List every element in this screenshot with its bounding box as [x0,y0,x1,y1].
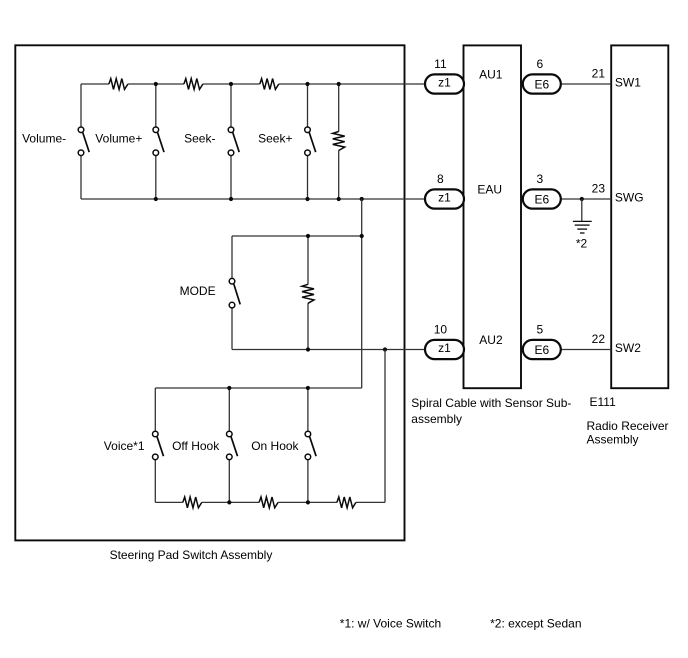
svg-text:Voice*1: Voice*1 [104,439,145,453]
svg-text:Off Hook: Off Hook [172,439,220,453]
svg-text:E6: E6 [534,193,549,207]
wire: voice top rail y388 [155,387,361,389]
junction dot EAU rail [305,197,309,201]
box: Radio Receiver Assembly (E111) [611,45,668,388]
junction dot top rail [337,82,341,86]
svg-text:z1: z1 [438,341,451,355]
resistor R6 (voice row left) [183,497,202,508]
svg-text:z1: z1 [438,76,451,90]
wire: Seek+ branch verticals [307,84,309,199]
wire: vertical from AU2 rail down to voice bottom rail (x385) [384,350,386,503]
svg-text:11: 11 [434,57,447,71]
wire: EAU bottom rail y199 [81,198,425,200]
svg-text:SWG: SWG [615,191,644,205]
svg-text:SW2: SW2 [615,341,641,355]
wire: vertical from EAU rail down to voice top rail (x361.7) [361,199,363,388]
wire: Voice*1 branch verticals [154,388,156,502]
junction dot AU2 rail at resistor [306,347,310,351]
svg-text:Assembly: Assembly [587,432,639,446]
caption Radio Receiver Assembly [587,419,669,447]
svg-text:On Hook: On Hook [251,439,299,453]
resistor R5 (MODE parallel) [302,284,314,303]
resistor R7 (voice row middle) [259,497,278,508]
svg-text:Radio Receiver: Radio Receiver [587,419,669,433]
svg-text:Seek-: Seek- [184,131,215,145]
svg-text:SW1: SW1 [615,76,641,90]
svg-text:E6: E6 [534,343,549,357]
wire: On Hook branch verticals [307,388,309,502]
junction dot voice top rail On Hook [306,386,310,390]
connector z1 (EAU row) [425,189,464,208]
junction dot top rail [154,82,158,86]
svg-text:5: 5 [536,323,543,337]
switch On Hook [305,431,316,460]
wire: AU2 row between E6 and radio box [561,349,611,351]
resistor R4 (top row vertical) [333,132,345,151]
resistor R2 (between Volume+ and Seek-) [184,79,203,90]
junction dot ground tap x581.8 on EAU-SWG wire [580,197,584,201]
svg-text:6: 6 [536,57,543,71]
svg-text:*2: *2 [576,237,588,251]
resistor R8 (voice row right) [337,497,356,508]
svg-text:Seek+: Seek+ [258,131,292,145]
svg-text:10: 10 [434,323,448,337]
wire: Seek- branch verticals [230,84,232,199]
wire: pull-up resistor branch verticals [338,84,340,199]
switch MODE [229,278,240,308]
svg-text:E111: E111 [590,395,617,409]
wire: MODE top rail y236 [232,235,362,237]
svg-text:21: 21 [592,67,606,81]
switch Voice*1 [153,431,164,460]
junction dot top rail [305,82,309,86]
wire: voice bottom rail y502.4 (with resistor gaps) [155,501,385,503]
junction dot EAU rail [360,197,364,201]
box: Steering Pad Switch Assembly [15,45,404,540]
junction dot AU2 rail at x385 [383,347,387,351]
switch Off Hook [227,431,238,460]
svg-text:assembly: assembly [411,412,462,426]
connector E6 (EAU row) [523,189,561,208]
svg-text:23: 23 [592,182,606,196]
wire: MODE switch column verticals [231,236,233,350]
connector E6 (AU1 row) [523,74,561,93]
switch Seek- [228,127,239,156]
resistor R3 (between Seek- and Seek+) [260,79,279,90]
box: Spiral Cable with Sensor Sub-assembly [464,45,522,388]
junction dot voice top rail Off Hook [227,386,231,390]
junction dot EAU rail [229,197,233,201]
svg-text:MODE: MODE [180,284,216,298]
connector E6 (AU2 row) [523,340,561,359]
svg-text:AU1: AU1 [479,68,503,82]
svg-text:E6: E6 [534,78,549,92]
wire: Volume- branch verticals [80,84,82,199]
svg-text:Volume+: Volume+ [95,131,142,145]
svg-text:AU2: AU2 [479,333,503,347]
wire: AU1 row between E6 and radio box [561,83,611,85]
junction dot EAU rail [154,197,158,201]
connector z1 (AU1 row) [425,74,464,93]
svg-text:*2: except Sedan: *2: except Sedan [490,616,581,630]
junction dot EAU rail [337,197,341,201]
resistor R1 (between Volume- and Volume+) [109,79,128,90]
junction dot voice bottom rail Off Hook [227,500,231,504]
svg-text:22: 22 [592,332,606,346]
junction dot top rail [229,82,233,86]
svg-text:z1: z1 [438,191,451,205]
junction dot voice bottom rail On Hook [306,500,310,504]
svg-text:*1: w/ Voice Switch: *1: w/ Voice Switch [340,616,441,630]
caption Spiral Cable with Sensor Sub-assembly [411,396,571,426]
wire: Volume+ branch verticals [155,84,157,199]
ground symbol (*2, except Sedan) [573,199,592,233]
wire: Off Hook branch verticals [228,388,230,502]
svg-text:Spiral Cable with Sensor Sub-: Spiral Cable with Sensor Sub- [411,396,571,410]
wire: MODE resistor column verticals [307,236,309,350]
svg-text:EAU: EAU [477,183,502,197]
junction dot MODE top rail right end [360,234,364,238]
connector z1 (AU2 row) [425,340,464,359]
wire: top rail y84 (with resistor gaps) [81,83,425,85]
switch Volume+ [153,127,164,156]
switch Seek+ [305,127,316,156]
svg-text:Volume-: Volume- [22,131,66,145]
wire: EAU row between E6 and radio box [561,198,611,200]
junction dot MODE top rail at resistor [306,234,310,238]
wire: AU2 / MODE bottom rail y349.5 [232,349,425,351]
svg-text:Steering Pad Switch Assembly: Steering Pad Switch Assembly [110,548,273,562]
svg-text:8: 8 [437,172,444,186]
svg-text:3: 3 [536,172,543,186]
switch Volume- [78,127,89,156]
